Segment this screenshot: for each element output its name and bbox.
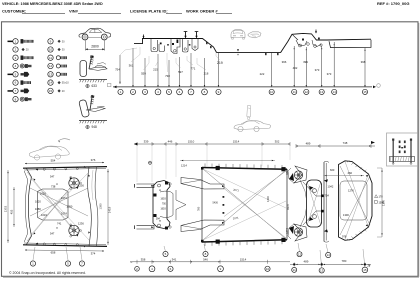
svg-text:⌀: ⌀ bbox=[131, 260, 133, 264]
svg-text:© 2004 Snap-on Incorporated. A: © 2004 Snap-on Incorporated. All rights … bbox=[9, 271, 86, 275]
svg-text:1074: 1074 bbox=[61, 212, 67, 216]
svg-text:547: 547 bbox=[50, 175, 55, 179]
svg-text:12: 12 bbox=[298, 252, 302, 256]
svg-text:VEHICLE: 1986 MERCEDES-BENZ 3: VEHICLE: 1986 MERCEDES-BENZ 300E 4DR Sed… bbox=[2, 2, 103, 6]
svg-text:222: 222 bbox=[260, 72, 265, 76]
svg-text:218: 218 bbox=[204, 72, 209, 76]
svg-text:1080: 1080 bbox=[35, 207, 41, 211]
svg-text:1276: 1276 bbox=[348, 189, 354, 193]
svg-text:1236: 1236 bbox=[78, 184, 84, 188]
svg-text:178: 178 bbox=[379, 196, 384, 199]
svg-text:1609: 1609 bbox=[286, 169, 289, 175]
svg-text:373: 373 bbox=[327, 72, 332, 76]
svg-text:1020: 1020 bbox=[35, 200, 41, 204]
svg-text:738: 738 bbox=[51, 184, 56, 188]
svg-text:302: 302 bbox=[275, 140, 280, 144]
svg-text:559: 559 bbox=[141, 72, 146, 76]
svg-text:1418: 1418 bbox=[108, 206, 112, 213]
svg-text:1300: 1300 bbox=[343, 213, 349, 217]
svg-text:771: 771 bbox=[191, 67, 196, 71]
svg-text:358: 358 bbox=[141, 257, 146, 261]
svg-text:1514: 1514 bbox=[240, 257, 247, 261]
svg-text:15: 15 bbox=[49, 89, 53, 93]
svg-text:215: 215 bbox=[153, 68, 158, 72]
svg-text:10: 10 bbox=[270, 90, 274, 94]
svg-text:489: 489 bbox=[306, 142, 311, 146]
svg-text:CUSTOMER:: CUSTOMER: bbox=[2, 9, 26, 14]
svg-text:748: 748 bbox=[343, 141, 348, 145]
svg-text:780: 780 bbox=[341, 259, 346, 263]
svg-text:55x10: 55x10 bbox=[62, 81, 70, 85]
svg-text:10: 10 bbox=[266, 267, 270, 271]
svg-text:948: 948 bbox=[92, 125, 98, 129]
svg-text:1510: 1510 bbox=[188, 140, 195, 144]
svg-text:432: 432 bbox=[293, 66, 298, 70]
svg-text:374: 374 bbox=[91, 252, 96, 256]
svg-text:15: 15 bbox=[363, 268, 367, 272]
svg-text:1236: 1236 bbox=[78, 222, 84, 226]
svg-text:1019: 1019 bbox=[40, 192, 46, 196]
svg-text:12: 12 bbox=[49, 64, 53, 68]
svg-text:1214: 1214 bbox=[181, 164, 187, 168]
svg-text:2800: 2800 bbox=[91, 45, 99, 49]
svg-text:LICENSE PLATE ID:: LICENSE PLATE ID: bbox=[130, 9, 168, 14]
svg-text:597: 597 bbox=[178, 70, 183, 74]
svg-text:341: 341 bbox=[172, 257, 177, 261]
svg-text:376: 376 bbox=[91, 158, 96, 162]
svg-text:453: 453 bbox=[10, 209, 14, 214]
svg-text:373: 373 bbox=[315, 68, 320, 72]
svg-text:547: 547 bbox=[50, 232, 55, 236]
svg-text:398: 398 bbox=[361, 60, 366, 64]
svg-text:741: 741 bbox=[57, 222, 62, 226]
svg-text:11: 11 bbox=[49, 56, 52, 60]
svg-text:1352: 1352 bbox=[4, 205, 8, 212]
svg-text:13: 13 bbox=[49, 72, 53, 76]
svg-text:760: 760 bbox=[197, 206, 201, 211]
svg-text:VIN#: VIN# bbox=[69, 9, 79, 14]
svg-text:1603: 1603 bbox=[161, 198, 167, 200]
svg-text:361: 361 bbox=[129, 64, 134, 68]
svg-text:15: 15 bbox=[363, 90, 367, 94]
svg-text:1603: 1603 bbox=[161, 208, 167, 210]
svg-text:489: 489 bbox=[303, 259, 308, 263]
svg-text:219: 219 bbox=[217, 61, 223, 65]
svg-text:658: 658 bbox=[51, 251, 56, 255]
svg-text:1514: 1514 bbox=[233, 140, 240, 144]
svg-text:5436: 5436 bbox=[213, 201, 219, 204]
svg-text:660: 660 bbox=[330, 168, 335, 172]
svg-text:396: 396 bbox=[282, 60, 287, 64]
svg-text:14: 14 bbox=[49, 81, 53, 85]
svg-text:14: 14 bbox=[333, 90, 337, 94]
svg-text:WORK ORDER #: WORK ORDER # bbox=[186, 9, 218, 14]
svg-text:554: 554 bbox=[51, 159, 56, 163]
svg-text:11: 11 bbox=[293, 268, 296, 272]
svg-text:1042: 1042 bbox=[328, 185, 334, 189]
svg-text:1474: 1474 bbox=[286, 228, 289, 234]
svg-text:1416: 1416 bbox=[266, 196, 270, 202]
svg-text:754: 754 bbox=[325, 194, 330, 198]
svg-text:546: 546 bbox=[203, 257, 208, 261]
svg-text:754: 754 bbox=[115, 68, 120, 72]
svg-text:13: 13 bbox=[320, 90, 324, 94]
svg-text:1090: 1090 bbox=[67, 205, 73, 209]
svg-text:633: 633 bbox=[92, 84, 98, 88]
svg-text:10: 10 bbox=[49, 48, 53, 52]
svg-text:399: 399 bbox=[303, 60, 308, 64]
svg-text:9370: 9370 bbox=[286, 204, 290, 210]
svg-text:1074: 1074 bbox=[61, 196, 67, 200]
svg-text:339: 339 bbox=[144, 140, 149, 144]
svg-text:738: 738 bbox=[165, 74, 170, 78]
svg-text:11: 11 bbox=[293, 90, 296, 94]
svg-text:REF #: 1790_00G: REF #: 1790_00G bbox=[377, 1, 409, 6]
svg-text:12: 12 bbox=[305, 90, 309, 94]
svg-text:1390: 1390 bbox=[99, 203, 103, 209]
svg-text:460: 460 bbox=[348, 171, 353, 175]
svg-text:446: 446 bbox=[168, 140, 173, 144]
svg-text:13: 13 bbox=[320, 268, 324, 272]
svg-text:1170: 1170 bbox=[382, 200, 386, 206]
svg-text:1019: 1019 bbox=[41, 213, 47, 217]
svg-text:978: 978 bbox=[342, 234, 347, 238]
svg-text:14: 14 bbox=[327, 253, 331, 257]
